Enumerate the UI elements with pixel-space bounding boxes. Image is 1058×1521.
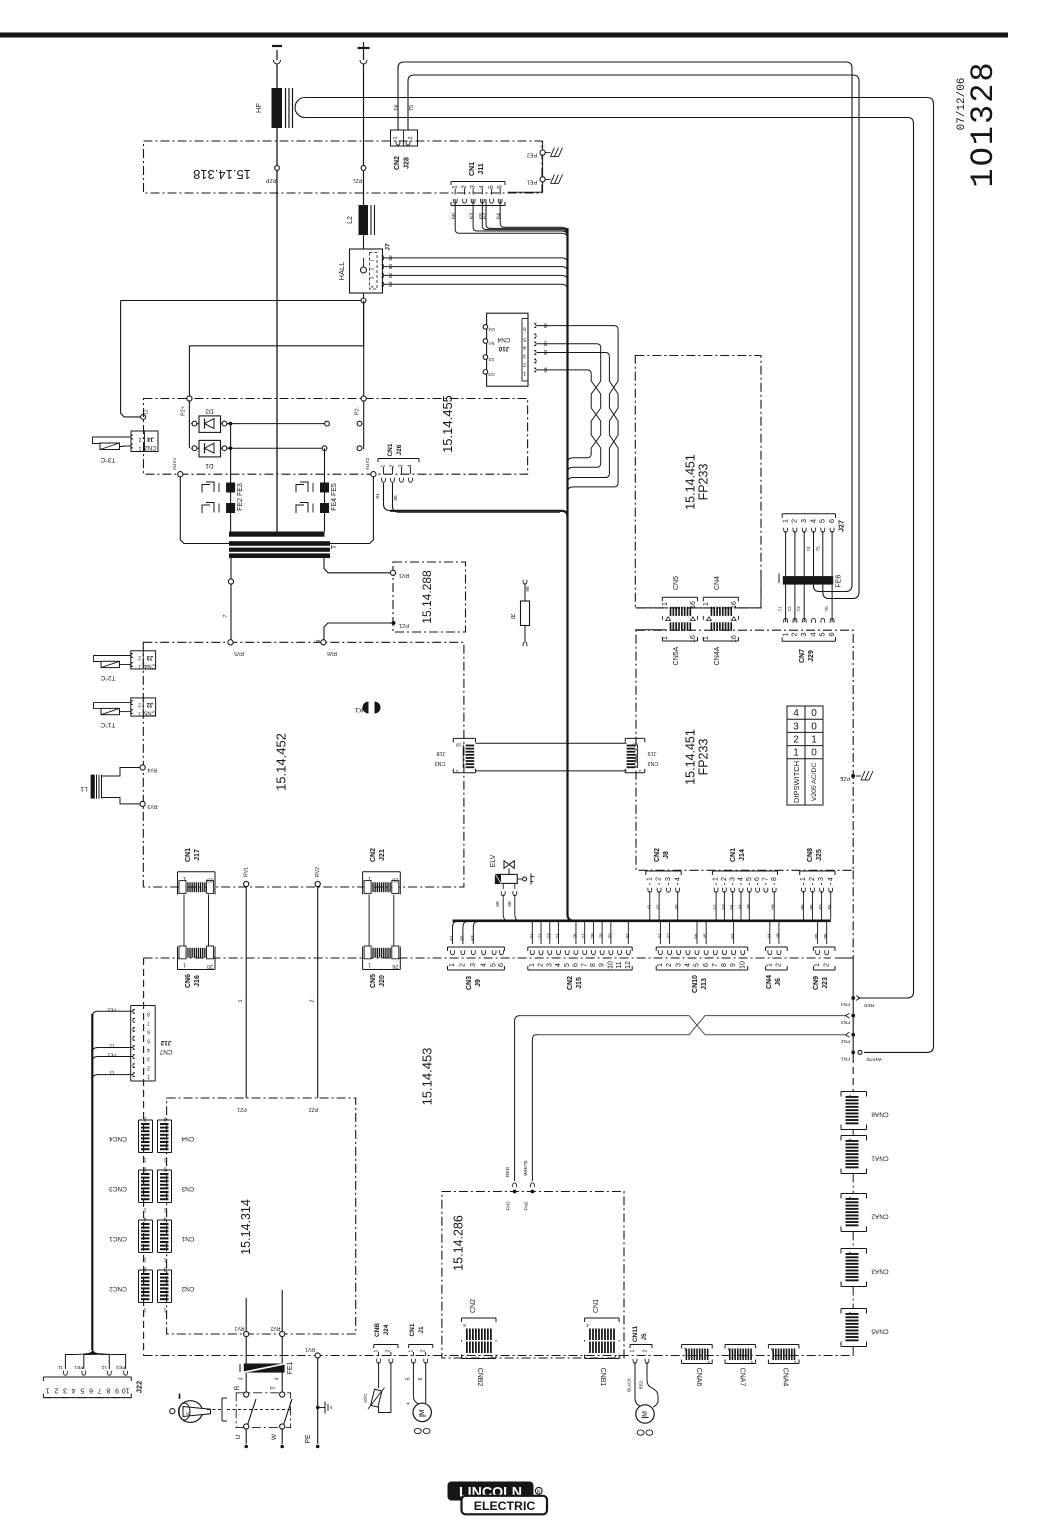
svg-text:62: 62 [388,272,394,278]
svg-text:CN2: CN2 [181,1285,194,1292]
pin RV2 314 [280,1331,285,1336]
svg-text:CN5: CN5 [370,974,377,988]
svg-text:CN1: CN1 [185,848,192,862]
svg-text:3: 3 [818,877,825,881]
board 15.14.314 [167,1098,356,1334]
pin RV2 mid [315,881,320,886]
wire secondary right to RV1 [324,558,390,573]
svg-text:58: 58 [507,901,513,907]
svg-text:15.14.451: 15.14.451 [684,729,698,785]
pin RV1 board288 [390,570,395,575]
svg-text:20: 20 [207,877,213,883]
connector CN3 J9 [448,946,505,948]
svg-text:30: 30 [607,933,613,939]
svg-text:45: 45 [703,933,709,939]
svg-text:1: 1 [163,1157,166,1163]
svg-text:PZP: PZP [265,177,276,183]
svg-text:1: 1 [800,877,807,881]
connector CNA7 [725,1344,756,1346]
wires J18 J19 [476,742,627,744]
svg-text:12: 12 [101,1364,107,1370]
svg-text:CN11: CN11 [632,1325,639,1342]
svg-text:J15: J15 [576,977,583,989]
wires J12 to bundle [92,1011,133,1016]
svg-text:CNA1: CNA1 [871,1155,889,1162]
svg-text:4: 4 [275,1377,281,1380]
wires J27 to FE6 [785,531,787,576]
svg-text:2: 2 [138,655,141,661]
svg-text:12: 12 [625,961,632,969]
wire 74 to J27 [398,62,852,592]
svg-text:5: 5 [564,963,571,967]
svg-text:PZ1: PZ1 [399,622,409,628]
svg-text:4: 4 [684,963,691,967]
svg-text:1: 1 [368,962,371,968]
svg-text:66: 66 [452,213,458,219]
connector CNA6 [682,1344,713,1346]
svg-text:2: 2 [721,877,728,881]
svg-text:5: 5 [488,185,495,189]
svg-text:CN10: CN10 [692,975,699,993]
svg-text:82: 82 [388,255,394,261]
svg-text:2: 2 [666,963,673,967]
svg-text:7: 7 [581,963,588,967]
svg-text:J13: J13 [701,978,708,990]
svg-text:4: 4 [370,285,376,288]
svg-text:CN7: CN7 [799,649,806,663]
svg-text:2: 2 [790,632,799,636]
svg-text:4: 4 [408,464,414,467]
svg-text:FN2: FN2 [524,1201,530,1210]
svg-text:FE1: FE1 [287,1361,294,1374]
thermostat T3C [93,437,132,444]
svg-text:15.14.452: 15.14.452 [274,733,289,791]
svg-text:6: 6 [147,1028,150,1034]
svg-text:15.14.286: 15.14.286 [452,1215,466,1271]
svg-text:5: 5 [818,519,827,523]
svg-text:0: 0 [811,721,817,732]
board 15.14.452 [143,642,464,887]
svg-text:3: 3 [239,1377,245,1380]
svg-text:11: 11 [616,961,623,968]
svg-text:12: 12 [144,409,150,415]
svg-text:26: 26 [392,963,398,969]
svg-text:1: 1 [780,519,789,523]
svg-text:8: 8 [143,1266,146,1272]
pin RV1 314 [244,1331,249,1336]
svg-text:41: 41 [657,933,663,939]
wire HALL bottom [363,293,365,298]
wire L1 RV4 [102,768,140,777]
svg-text:2: 2 [790,519,799,523]
svg-text:6: 6 [703,963,710,967]
svg-text:52: 52 [713,904,719,910]
svg-text:CN2: CN2 [144,444,157,450]
svg-text:7: 7 [712,963,719,967]
svg-text:6: 6 [497,185,504,189]
svg-text:90: 90 [543,341,549,347]
svg-text:CN9: CN9 [813,976,820,990]
pin RV6 [321,640,326,645]
svg-text:RED: RED [639,1381,644,1390]
connector CN4A [711,622,713,631]
svg-text:1: 1 [793,748,799,759]
svg-text:FE4 FE5: FE4 FE5 [331,483,338,511]
svg-text:1: 1 [613,1354,616,1360]
svg-text:1: 1 [138,664,141,670]
ferrite FE3 [226,483,235,493]
wire P2+ to diodes [188,401,190,448]
svg-text:U: U [235,1434,242,1439]
wire PZ1 to RV6 [324,623,392,640]
svg-text:CNB: CNB [374,1323,381,1337]
svg-text:1: 1 [143,1157,146,1163]
svg-text:8: 8 [147,1010,150,1016]
wires CN5 CN4 stubs [635,607,666,609]
thermistor NTC [378,1362,380,1388]
wire secondary left RV5 [230,558,232,579]
svg-text:45: 45 [674,904,680,910]
svg-text:1: 1 [138,445,141,451]
svg-text:NTC: NTC [363,1393,368,1403]
svg-text:84: 84 [375,493,381,499]
board 15.14.286 [442,1192,624,1359]
svg-text:86: 86 [809,904,815,910]
svg-text:85: 85 [814,933,820,939]
svg-text:3: 3 [147,1056,150,1062]
svg-text:1: 1 [370,259,376,262]
svg-text:CN2: CN2 [370,848,377,862]
svg-text:0: 0 [811,708,817,719]
svg-text:12: 12 [109,1043,115,1049]
svg-text:RV1: RV1 [234,1325,244,1331]
svg-text:22: 22 [538,933,544,939]
harness edge right [852,870,854,958]
svg-text:CN5A: CN5A [673,646,680,665]
connector CN2 J28 [391,130,418,146]
svg-text:15.14.314: 15.14.314 [239,1199,253,1255]
svg-text:6: 6 [463,1322,466,1328]
svg-text:J4: J4 [147,436,154,442]
svg-text:CN8: CN8 [807,848,814,862]
svg-text:4: 4 [147,1047,150,1053]
wire bundle left [91,1014,93,1350]
wire P2- drop [363,303,365,396]
svg-text:24: 24 [555,933,561,939]
svg-text:94: 94 [543,367,549,373]
wire FN2 crossover [520,1016,846,1035]
svg-text:64: 64 [730,933,736,939]
svg-text:2: 2 [643,1349,649,1352]
connector CN2 J15 [528,946,632,948]
solenoid valve ELV [504,861,514,869]
svg-text:T1°C: T1°C [100,721,115,729]
svg-text:J28: J28 [404,157,411,169]
svg-text:FP233: FP233 [697,739,711,776]
svg-text:2: 2 [54,1387,58,1394]
pin PE1 with ground [540,177,545,182]
svg-text:32: 32 [625,933,631,939]
connector J22 [88,1350,97,1355]
ferrite FE6 [783,576,833,585]
svg-text:PZE: PZE [839,775,850,781]
svg-text:6: 6 [573,963,580,967]
wire FE5 column [324,448,326,531]
connector CN7 J12 [131,1005,156,1007]
logo LINCOLN ELECTRIC [448,1482,534,1501]
svg-text:2: 2 [370,267,376,270]
svg-text:RV1: RV1 [305,1346,315,1352]
svg-text:1: 1 [147,1074,150,1080]
svg-text:8: 8 [143,1166,146,1172]
svg-text:0: 0 [811,748,817,759]
svg-text:16: 16 [731,635,738,643]
svg-text:PE1: PE1 [74,1364,83,1370]
connector CN2 J4 [131,431,158,452]
svg-text:1: 1 [455,768,458,774]
svg-text:J14: J14 [739,849,746,861]
svg-text:4: 4 [808,632,817,636]
svg-text:J17: J17 [194,849,201,861]
svg-text:+: + [406,1402,410,1408]
pin PZE with ground [851,774,855,778]
wire PE [317,1358,319,1444]
svg-text:RV3: RV3 [147,803,157,809]
wires ELV to bus [502,883,504,889]
svg-text:20: 20 [456,742,462,748]
svg-text:PZL: PZL [352,177,362,183]
svg-text:J20: J20 [379,975,386,987]
svg-text:D1: D1 [205,462,214,469]
svg-text:J29: J29 [808,650,815,662]
svg-text:2: 2 [461,185,468,189]
transformer T core [229,541,330,546]
svg-text:R: R [510,612,515,619]
svg-text:66: 66 [694,933,700,939]
svg-text:RV1: RV1 [399,572,410,578]
svg-text:1: 1 [713,877,720,881]
wire AUX2 to transformer [330,477,373,544]
svg-text:15.14.318: 15.14.318 [193,167,251,182]
wire HF loop [295,98,305,118]
svg-text:CN3: CN3 [466,976,473,990]
svg-text:76: 76 [824,606,830,612]
svg-text:75: 75 [409,105,415,111]
svg-text:6: 6 [827,519,836,523]
pin FN1 286 [513,1183,517,1187]
connector CN2 J8 [646,870,681,872]
svg-text:53: 53 [721,904,727,910]
svg-text:J18: J18 [437,750,446,756]
svg-text:M: M [419,1409,426,1415]
svg-text:8: 8 [106,1387,110,1394]
svg-text:L2: L2 [347,216,354,224]
svg-text:10: 10 [739,961,746,969]
svg-text:8: 8 [143,1116,146,1122]
svg-text:7: 7 [223,614,229,617]
svg-text:3: 3 [523,353,526,359]
svg-text:CN6: CN6 [185,974,192,988]
svg-text:1: 1 [408,1349,414,1352]
ferrite FE2 [226,503,235,513]
pin FN2 286 [531,1183,535,1187]
node AUX1 [178,472,183,477]
svg-text:J1: J1 [418,1326,425,1334]
svg-text:42: 42 [656,904,662,910]
wires J11 bundle [455,199,567,238]
inductor L1 [91,775,95,799]
svg-text:1: 1 [143,1307,146,1313]
svg-text:RV2: RV2 [315,867,321,877]
ferrite FE5 [320,483,329,493]
svg-text:AUX1: AUX1 [172,457,178,470]
svg-text:CN1: CN1 [181,1235,194,1242]
svg-text:CNC2: CNC2 [109,1285,127,1292]
svg-text:J26: J26 [396,444,403,455]
svg-text:FP233: FP233 [697,464,711,501]
diode D2 [191,423,199,425]
svg-text:2: 2 [793,735,799,746]
board 15.14.451 FP233 lower [636,630,853,870]
svg-text:BLACK: BLACK [627,1378,632,1392]
wire plus lead [363,64,365,205]
connector CNA3 [841,1248,867,1250]
svg-text:G4: G4 [488,326,495,332]
pin P2- [361,396,366,401]
svg-text:J27: J27 [839,520,846,532]
svg-text:3: 3 [675,963,682,967]
diode D1 [191,447,199,449]
wire harness bus [453,919,831,922]
svg-text:J8: J8 [663,851,670,859]
svg-text:CN1: CN1 [409,1323,416,1336]
svg-text:CN1: CN1 [469,162,476,176]
transformer T secondary [229,553,330,558]
svg-text:26: 26 [572,933,578,939]
pin FN4 [851,996,855,1000]
svg-text:2: 2 [138,702,141,708]
svg-text:8: 8 [590,963,597,967]
svg-text:86: 86 [823,933,829,939]
svg-text:4: 4 [586,1322,589,1328]
svg-text:7: 7 [147,1019,150,1025]
svg-text:74: 74 [394,105,400,111]
svg-text:CNC1: CNC1 [109,1235,127,1242]
svg-text:5A: 5A [488,340,495,346]
svg-text:5: 5 [80,1387,84,1394]
svg-text:CN4A: CN4A [714,646,721,665]
connector CNA2 [841,1193,867,1195]
svg-text:4: 4 [479,185,486,189]
svg-text:15.14.451: 15.14.451 [684,454,698,510]
svg-text:R: R [537,1489,541,1495]
svg-text:L1: L1 [80,785,88,792]
svg-text:CNA2: CNA2 [871,1213,889,1220]
svg-text:T: T [329,544,338,549]
svg-text:T3°C: T3°C [100,456,115,464]
svg-text:CN2: CN2 [567,976,574,990]
pin PZL [361,166,366,171]
svg-text:2: 2 [138,436,141,442]
svg-text:2: 2 [460,963,467,967]
node AUX2 [371,472,376,477]
svg-text:21: 21 [529,933,535,939]
connector CNA8 [841,1091,867,1093]
svg-text:2: 2 [386,1349,392,1352]
wire right drop white [864,98,934,1053]
svg-text:RV1: RV1 [244,867,250,877]
svg-text:83: 83 [388,264,394,270]
svg-text:7: 7 [763,877,770,881]
svg-text:CNA8: CNA8 [871,1111,889,1118]
svg-text:5: 5 [818,632,827,636]
svg-text:15.14.288: 15.14.288 [420,570,434,624]
svg-text:CN4: CN4 [497,336,510,343]
svg-text:1O1328: 1O1328 [965,60,1002,187]
wires FE6 to J29 [785,585,787,622]
svg-text:1: 1 [638,768,641,774]
svg-text:1: 1 [657,963,664,967]
wires bus to J13 [659,922,661,944]
svg-text:2: 2 [656,877,663,881]
svg-text:26: 26 [392,877,398,883]
svg-text:42: 42 [666,933,672,939]
svg-text:RED: RED [505,1166,511,1177]
svg-text:85: 85 [393,495,399,501]
svg-text:1: 1 [449,963,456,967]
ferrite FE4 [320,503,329,513]
svg-text:J6: J6 [775,978,782,986]
svg-text:5: 5 [523,336,526,342]
svg-text:3: 3 [399,464,405,467]
pin RV5 [228,640,233,645]
svg-text:20: 20 [632,742,638,748]
svg-text:CN2: CN2 [394,156,401,170]
svg-text:RV4: RV4 [147,767,157,773]
svg-text:3: 3 [793,721,799,732]
connector pair CNC3 [139,1169,153,1171]
svg-text:AUX2: AUX2 [365,457,371,470]
svg-text:1: 1 [183,875,186,881]
harness row line [144,957,831,959]
svg-text:73: 73 [796,606,802,612]
svg-text:T2°C: T2°C [100,674,115,682]
svg-text:FN3: FN3 [841,1019,850,1025]
svg-text:PE1: PE1 [527,178,537,184]
svg-text:FN1: FN1 [841,1056,850,1062]
svg-text:6: 6 [754,877,761,881]
svg-text:1: 1 [238,999,244,1002]
harness CNA column [852,1130,854,1136]
svg-text:5: 5 [491,963,498,967]
mains switch [179,1401,203,1423]
title bar [0,33,1008,38]
svg-text:48: 48 [775,933,781,939]
svg-text:G3: G3 [488,371,495,377]
svg-text:HF: HF [254,103,263,113]
connector CN4 J6 [766,946,788,948]
connector CNA4 [768,1344,799,1346]
svg-text:5: 5 [694,963,701,967]
wire heavy to bundle [390,511,568,516]
svg-text:6: 6 [186,1412,192,1415]
svg-text:CN5: CN5 [143,710,156,716]
connector pair CN2 J21 / CN5 J20 [363,871,401,873]
svg-text:M: M [642,1411,649,1417]
wire bundle vertical [566,228,568,915]
svg-text:23: 23 [546,933,552,939]
wires J8 J14 J25 to bus [649,891,651,920]
